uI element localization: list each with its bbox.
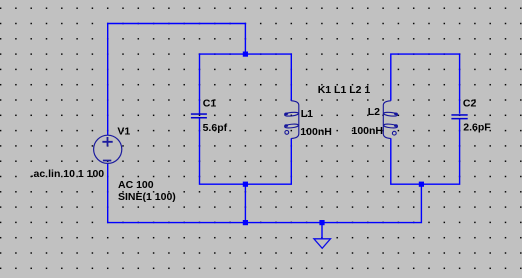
svg-text:100nH: 100nH	[300, 126, 332, 138]
svg-text:V1: V1	[117, 126, 130, 138]
svg-text:2.6pF: 2.6pF	[463, 122, 491, 134]
svg-text:C2: C2	[463, 97, 477, 109]
svg-text:5.6pf: 5.6pf	[203, 122, 228, 134]
svg-text:L2: L2	[368, 106, 380, 118]
svg-text:C1: C1	[203, 98, 217, 110]
svg-text:.ac lin 10 1 100: .ac lin 10 1 100	[31, 168, 105, 180]
svg-text:K1 L1 L2 1: K1 L1 L2 1	[318, 84, 371, 96]
svg-text:AC 100: AC 100	[118, 179, 154, 191]
svg-text:100nH: 100nH	[352, 125, 384, 137]
svg-text:L1: L1	[301, 108, 313, 120]
svg-text:SINE(1 100): SINE(1 100)	[118, 191, 176, 203]
